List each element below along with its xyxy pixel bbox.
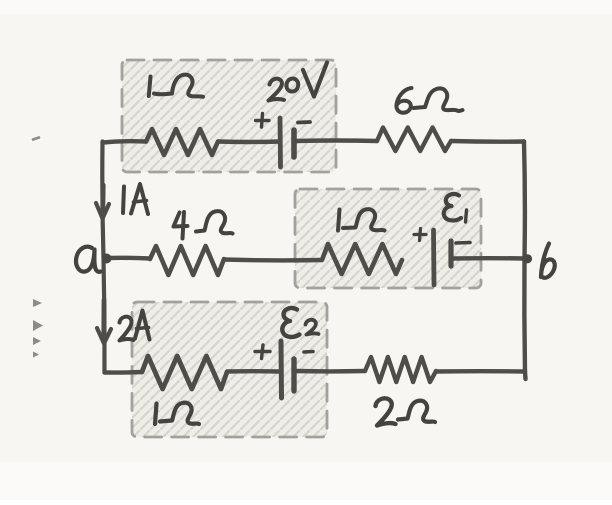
wire: top branch right segment <box>451 139 524 144</box>
wire: bottom branch left segment <box>105 370 143 375</box>
label "2A" for bottom-branch current <box>120 311 150 341</box>
resistor 1-ohm (bottom branch) <box>142 356 227 389</box>
highlight region around R1 and 20V battery (top) <box>122 60 336 172</box>
wire: middle branch from node a to 4-ohm resistor <box>107 256 150 261</box>
wire: bottom branch between 1-ohm resistor and e2 battery <box>227 369 279 374</box>
wire: bottom branch between e2 battery and 2-ohm resistor <box>296 369 365 374</box>
label node "b" <box>541 244 555 278</box>
node a (junction dot) <box>102 254 112 264</box>
label "20V" for top battery <box>269 63 328 101</box>
resistor 1-ohm (middle branch) <box>322 244 402 274</box>
wire: middle branch between 4-ohm and 1-ohm resistors <box>224 257 322 262</box>
margin mark: chevron 3 <box>33 337 41 345</box>
label "1 ohm" for top resistor <box>149 75 203 97</box>
margin mark: chevron 4 <box>33 352 39 358</box>
battery 20V: short (-) plate <box>291 130 297 157</box>
label node "a" <box>76 247 100 272</box>
battery e1: plus sign <box>414 229 426 241</box>
node b (junction dot) <box>523 254 532 263</box>
margin mark: small dash left edge <box>33 138 39 140</box>
battery e2: long (+) plate <box>279 341 285 398</box>
label "1 ohm" for bottom 1-ohm resistor <box>155 403 199 424</box>
current arrow 2A (downward on left wire) <box>97 300 111 344</box>
battery e1: long (+) plate <box>431 230 436 285</box>
label "epsilon 2" for e2 battery <box>282 308 318 337</box>
wire: left vertical (a side, bottom half) <box>104 258 105 373</box>
wire: top branch left segment <box>103 141 146 142</box>
highlight region around 1-ohm resistor and EMF e2 (bottom) <box>132 302 327 437</box>
resistor 1-ohm (top branch) <box>146 129 218 155</box>
battery e2: plus sign <box>255 345 270 359</box>
wire: middle branch between e1 battery and node b <box>453 256 524 261</box>
wire: top branch between battery and 6-ohm resistor <box>295 138 377 143</box>
current arrow 1A (downward on left wire) <box>96 185 109 219</box>
resistor 6-ohm (top branch) <box>377 128 451 152</box>
label "6 ohm" for top-right resistor <box>396 88 462 113</box>
highlight region around 1-ohm resistor and EMF e1 (middle) <box>295 189 481 288</box>
label "4 ohm" for middle resistor <box>174 211 233 238</box>
wire: left vertical (a side, top half) <box>102 142 103 259</box>
battery e1: minus sign <box>456 241 470 245</box>
resistor 2-ohm (bottom branch) <box>365 357 436 382</box>
battery e2: short (-) plate <box>291 359 296 391</box>
label "1 ohm" for middle 1-ohm resistor <box>338 209 385 230</box>
label "1A" for middle-branch current <box>123 184 148 214</box>
battery e1: short (-) plate <box>448 241 453 266</box>
wire: right vertical (b side, bottom half) <box>524 259 525 380</box>
margin mark: chevron 2 <box>33 320 43 331</box>
battery e2: minus sign <box>304 350 313 354</box>
label "2 ohm" for bottom 2-ohm resistor <box>376 398 436 425</box>
wire: bottom branch right segment <box>436 369 525 374</box>
resistor 4-ohm (middle branch) <box>150 246 224 275</box>
battery 20V: plus sign <box>256 114 270 128</box>
battery 20V: long (+) plate <box>278 118 283 167</box>
battery 20V: minus sign <box>298 120 310 124</box>
wire: right vertical (b side, top half) <box>522 142 527 259</box>
label "epsilon 1" for e1 battery <box>444 194 467 222</box>
wire: top branch between R1 and 20V battery <box>218 139 279 144</box>
margin mark: chevron 1 <box>33 299 42 307</box>
